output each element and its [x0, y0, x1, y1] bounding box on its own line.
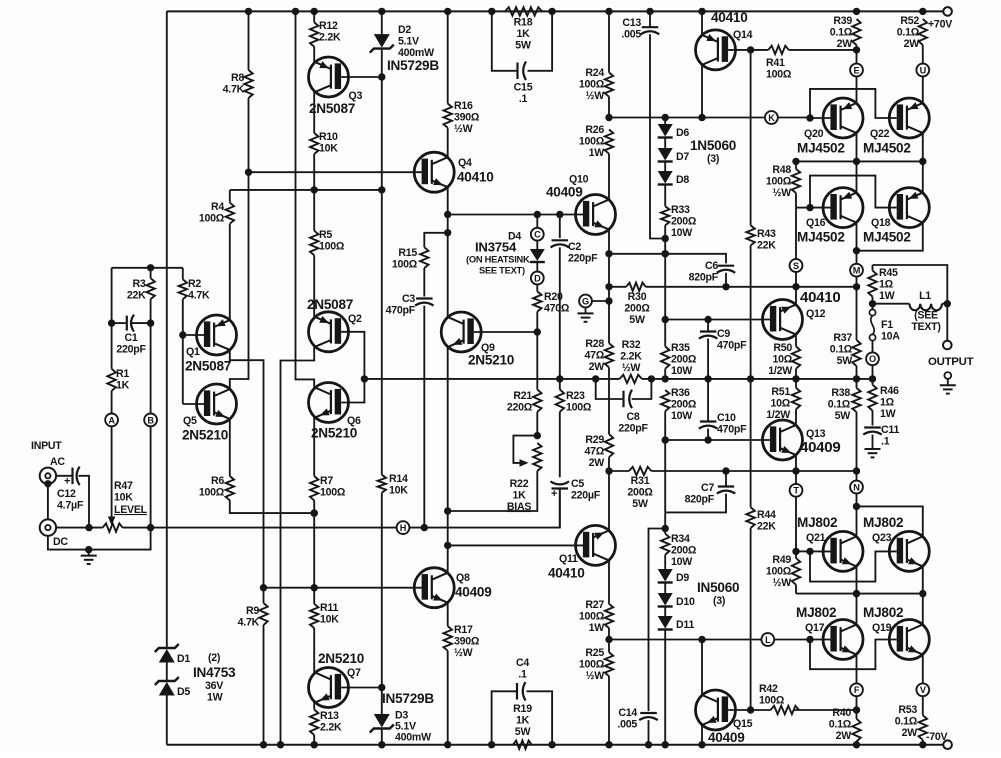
- resistor R36: [661, 387, 697, 440]
- wire C7 lead top: [725, 471, 727, 487]
- wire AC to DC jack: [47, 484, 49, 519]
- svg-text:L: L: [765, 635, 771, 645]
- svg-text:R25: R25: [585, 647, 604, 659]
- svg-text:4.7µF: 4.7µF: [57, 499, 84, 511]
- inductor L1: [873, 290, 948, 333]
- wire C to D4: [536, 215, 538, 228]
- resistor R28: [584, 338, 613, 434]
- svg-text:100Ω: 100Ω: [566, 401, 592, 413]
- resistor R46: [868, 385, 899, 426]
- wire H line right: [409, 490, 559, 528]
- svg-text:IN4753: IN4753: [193, 665, 236, 680]
- svg-text:2.2K: 2.2K: [319, 31, 341, 43]
- svg-text:R30: R30: [628, 291, 647, 303]
- svg-text:100Ω: 100Ω: [759, 694, 785, 706]
- svg-text:R28: R28: [585, 338, 604, 350]
- svg-text:(3): (3): [707, 153, 719, 165]
- svg-text:R31: R31: [631, 475, 650, 487]
- wire Q21 base lead: [810, 550, 830, 552]
- capacitor C9: [699, 328, 747, 351]
- wire R45 top line: [873, 265, 948, 304]
- svg-text:Q18: Q18: [871, 217, 891, 229]
- junction top rail x=314.2: [311, 8, 318, 15]
- capacitor C10: [699, 412, 747, 435]
- label (2): [208, 652, 220, 664]
- wire Q12 bottom: [795, 334, 797, 346]
- wire Q13 bottom: [795, 455, 797, 471]
- svg-text:2.2K: 2.2K: [320, 721, 342, 733]
- svg-text:100Ω: 100Ω: [199, 212, 225, 224]
- resistor R14: [378, 473, 409, 688]
- node C: [531, 228, 544, 241]
- label 36V: [205, 680, 223, 692]
- junction C6/R30bus: [722, 283, 729, 290]
- svg-text:R40: R40: [832, 707, 851, 719]
- junction Q3 base / D2 col: [378, 73, 385, 80]
- junction R6/R7 junction: [311, 509, 318, 516]
- svg-text:R4: R4: [211, 201, 224, 213]
- resistor R48: [766, 161, 800, 207]
- svg-text:1K: 1K: [516, 714, 530, 726]
- svg-text:.005: .005: [617, 718, 637, 730]
- svg-text:200Ω: 200Ω: [671, 353, 697, 365]
- svg-text:2N5210: 2N5210: [182, 428, 228, 443]
- svg-text:100Ω: 100Ω: [579, 658, 605, 670]
- svg-text:F: F: [854, 685, 860, 695]
- svg-text:0.1Ω: 0.1Ω: [830, 26, 853, 38]
- svg-text:R29: R29: [585, 434, 604, 446]
- svg-text:R24: R24: [585, 67, 604, 79]
- transistor Q12: [763, 289, 841, 340]
- svg-text:D5: D5: [177, 686, 190, 698]
- wire C1 lead r: [132, 322, 151, 324]
- label +70V: [928, 19, 952, 31]
- wire Q2 collector jog: [281, 347, 315, 745]
- svg-text:1K: 1K: [116, 379, 130, 391]
- resistor R42: [751, 683, 857, 714]
- ground input ground: [81, 550, 97, 564]
- svg-text:(2): (2): [208, 652, 220, 664]
- svg-text:40409: 40409: [708, 730, 745, 745]
- wire R37 col: [856, 287, 858, 340]
- svg-text:1W: 1W: [589, 147, 605, 159]
- svg-text:Q20: Q20: [804, 128, 824, 140]
- svg-text:R21: R21: [513, 390, 532, 402]
- svg-text:10W: 10W: [671, 556, 692, 568]
- wire Q7 base lead: [341, 687, 382, 689]
- wire R2 top wire: [229, 224, 231, 320]
- svg-text:200Ω: 200Ω: [624, 302, 650, 314]
- label 1W: [207, 692, 223, 704]
- svg-text:10K: 10K: [319, 142, 338, 154]
- junction bottom rail x=263.5: [260, 741, 267, 748]
- wire R21 top: [536, 332, 538, 390]
- junction F col/bus3: [853, 590, 860, 597]
- resistor R3: [127, 268, 155, 323]
- junction C8 right/C13: [648, 375, 655, 382]
- svg-text:D: D: [534, 273, 541, 283]
- wire 295 column: [296, 11, 315, 387]
- transistor Q3: [309, 57, 363, 116]
- resistor R33: [661, 204, 697, 239]
- svg-text:C15: C15: [514, 82, 533, 94]
- wire Q5 collector... emitter: [229, 419, 231, 476]
- svg-text:G: G: [582, 296, 589, 306]
- wire Q9 base lead: [474, 331, 538, 333]
- svg-text:R11: R11: [320, 602, 338, 614]
- transistor Q15: [696, 690, 753, 745]
- svg-text:100Ω: 100Ω: [766, 565, 792, 577]
- svg-text:Q7: Q7: [347, 667, 361, 679]
- wire Q4 base line: [249, 171, 425, 173]
- wire Q10 base line: [448, 214, 586, 216]
- junction C7/bus: [722, 467, 729, 474]
- svg-text:2W: 2W: [902, 727, 918, 739]
- resistor R21: [507, 390, 542, 436]
- wire to Q17: [856, 594, 858, 625]
- svg-text:R6: R6: [211, 475, 224, 487]
- label DC: [53, 536, 68, 548]
- wire F to R40: [856, 696, 858, 719]
- svg-text:T: T: [793, 486, 799, 496]
- resistor R19: [513, 657, 532, 749]
- svg-text:5W: 5W: [515, 39, 531, 51]
- svg-text:R12: R12: [319, 20, 338, 32]
- svg-text:SEE TEXT): SEE TEXT): [479, 266, 525, 276]
- wire C3 to H: [423, 306, 425, 528]
- svg-text:M: M: [853, 266, 861, 276]
- wire feedback bus: [364, 378, 619, 380]
- svg-text:R35: R35: [671, 342, 690, 354]
- svg-text:2N5087: 2N5087: [185, 359, 231, 374]
- svg-text:Q8: Q8: [456, 572, 470, 584]
- junction Q21 base: [806, 548, 813, 555]
- svg-text:R45: R45: [879, 267, 898, 279]
- wire R31 bus: [609, 470, 629, 472]
- capacitor C14: [617, 707, 657, 730]
- svg-text:100Ω: 100Ω: [199, 486, 225, 498]
- wire Q17 base lead: [810, 639, 830, 641]
- transistor Q21: [797, 515, 863, 571]
- wire Q16 base lead: [810, 207, 830, 209]
- svg-text:22K: 22K: [757, 239, 776, 251]
- label D1: [177, 653, 190, 665]
- ground output: [944, 372, 951, 379]
- wire R48 jog: [796, 207, 810, 209]
- label (3) top: [707, 153, 719, 165]
- wire E col to Q16: [856, 161, 858, 192]
- transistor Q18: [863, 188, 929, 245]
- junction 609/G: [605, 297, 612, 304]
- wire Dstring to Q12 baseline: [664, 239, 666, 320]
- junction R27/L line: [605, 636, 612, 643]
- wire D8 to R33: [664, 186, 666, 207]
- svg-text:.005: .005: [621, 28, 641, 40]
- junction bottom rail x=702.0: [698, 741, 705, 748]
- junction R35 top: [662, 316, 669, 323]
- svg-text:R39: R39: [833, 15, 852, 27]
- wire C12 to level pot: [79, 476, 90, 528]
- resistor R2: [179, 278, 210, 335]
- diode D9: [658, 569, 690, 584]
- svg-text:0.1Ω: 0.1Ω: [828, 398, 851, 410]
- resistor R35: [661, 320, 697, 379]
- junction Q15/L: [698, 636, 705, 643]
- svg-text:Q23: Q23: [872, 532, 892, 544]
- transistor Q8: [414, 568, 492, 608]
- svg-text:40409: 40409: [546, 185, 583, 200]
- wire D9-D10: [664, 584, 666, 595]
- svg-text:200Ω: 200Ω: [671, 398, 697, 410]
- svg-text:47Ω: 47Ω: [584, 349, 604, 361]
- svg-text:R13: R13: [320, 710, 339, 722]
- svg-text:22K: 22K: [127, 289, 146, 301]
- wire to OUTPUT: [946, 304, 948, 341]
- svg-text:R46: R46: [880, 385, 899, 397]
- junction R49 junction: [792, 548, 799, 555]
- wire C9 leads: [707, 320, 709, 332]
- resistor R44: [746, 379, 776, 710]
- svg-text:½W: ½W: [622, 362, 641, 374]
- junction top rail x=609.0: [605, 8, 612, 15]
- capacitor C13: [621, 17, 659, 40]
- junction T/lowbus: [792, 467, 799, 474]
- junction R35/bus: [662, 375, 669, 382]
- junction C1 right: [147, 319, 154, 326]
- resistor R34: [661, 529, 697, 571]
- wire Q14 bottom: [701, 65, 703, 118]
- svg-text:Q12: Q12: [806, 308, 826, 320]
- transistor Q14: [696, 10, 753, 70]
- junction R36 bottom: [662, 436, 669, 443]
- wire D to R20: [536, 284, 538, 291]
- svg-text:200Ω: 200Ω: [671, 215, 697, 227]
- svg-text:R16: R16: [454, 100, 473, 112]
- svg-text:R17: R17: [454, 624, 473, 636]
- resistor R9: [238, 603, 268, 628]
- resistor R5: [310, 190, 345, 317]
- transistor Q17: [796, 605, 863, 660]
- svg-text:820pF: 820pF: [689, 271, 719, 283]
- junction Q7 base: [378, 684, 385, 691]
- resistor R41: [751, 46, 857, 81]
- junction R43-R44/bus: [747, 375, 754, 382]
- svg-text:C6: C6: [705, 260, 718, 272]
- junction L1 right: [944, 300, 951, 307]
- wire U col to Q18: [922, 161, 924, 192]
- label INPUT: [31, 440, 62, 452]
- junction Q11 base line dot: [444, 542, 451, 549]
- wiper arrow R47: [108, 426, 116, 525]
- junction R34/C14: [662, 525, 669, 532]
- svg-text:40410: 40410: [800, 289, 840, 306]
- svg-text:(ON HEATSINK: (ON HEATSINK: [466, 255, 530, 265]
- junction Q17 base: [806, 636, 813, 643]
- resistor R13: [310, 702, 342, 745]
- junction Dstring/K: [662, 114, 669, 121]
- svg-text:Q21: Q21: [806, 532, 826, 544]
- svg-text:2W: 2W: [589, 361, 605, 373]
- node T: [790, 484, 803, 497]
- svg-text:R3: R3: [132, 278, 145, 290]
- junction R50/bus: [792, 375, 799, 382]
- svg-text:5W: 5W: [632, 498, 648, 510]
- wire Q20 base lead: [810, 117, 830, 119]
- label BIAS: [507, 501, 531, 513]
- junction bottom rail x=314.2: [311, 741, 318, 748]
- label IN5729B top: [387, 58, 439, 73]
- junction C2 top: [556, 211, 563, 218]
- junction V col/bus3: [919, 590, 926, 597]
- wire feedback bus right: [642, 378, 873, 380]
- junction Q16 base: [806, 204, 813, 211]
- wire U to Q22: [922, 76, 924, 103]
- junction Q18 join: [853, 247, 860, 254]
- junction top rail x=381.8: [378, 8, 385, 15]
- svg-text:1Ω: 1Ω: [880, 396, 895, 408]
- svg-text:100Ω: 100Ω: [766, 175, 792, 187]
- svg-text:½W: ½W: [773, 577, 792, 589]
- label D3 l3: [395, 732, 431, 744]
- junction S/R30bus: [792, 283, 799, 290]
- wire D7-D8: [664, 163, 666, 173]
- wire T to R49j: [795, 497, 797, 552]
- svg-text:IN5729B: IN5729B: [387, 58, 439, 73]
- svg-text:0.1Ω: 0.1Ω: [829, 718, 852, 730]
- svg-text:2N5210: 2N5210: [318, 651, 364, 666]
- label IN5729B bot: [382, 691, 434, 706]
- wire C7 bottom: [665, 494, 726, 513]
- resistor R53: [895, 704, 927, 745]
- junction 609/R30bus: [605, 283, 612, 290]
- wire Q14 top: [701, 11, 703, 35]
- svg-text:C1: C1: [124, 332, 137, 344]
- svg-text:MJ4502: MJ4502: [797, 230, 845, 245]
- node L: [761, 633, 774, 646]
- wire Q18 bottom: [857, 223, 923, 251]
- transistor Q4: [414, 152, 493, 192]
- capacitor C2: [551, 240, 599, 264]
- resistor R6: [199, 475, 314, 513]
- wire C10 lead2: [707, 429, 709, 440]
- node M: [850, 264, 863, 277]
- svg-text:R53: R53: [898, 704, 917, 716]
- resistor R49: [766, 551, 800, 593]
- svg-text:INPUT: INPUT: [31, 440, 62, 452]
- svg-text:C: C: [534, 230, 541, 240]
- junction bottom rail x=280.5: [277, 741, 284, 748]
- svg-text:Q4: Q4: [458, 157, 472, 169]
- wire Q17 bottom: [856, 654, 858, 683]
- svg-text:220µF: 220µF: [571, 489, 601, 501]
- svg-text:+70V: +70V: [928, 19, 952, 31]
- svg-text:Q11: Q11: [559, 553, 578, 565]
- svg-text:E: E: [854, 65, 860, 75]
- svg-text:O: O: [869, 354, 876, 364]
- svg-text:C2: C2: [568, 241, 581, 253]
- svg-text:10K: 10K: [389, 484, 408, 496]
- label heatsink2: [479, 266, 525, 276]
- svg-text:R44: R44: [757, 509, 776, 521]
- svg-text:D7: D7: [676, 151, 689, 163]
- junction R22 top: [534, 432, 541, 439]
- svg-text:D9: D9: [676, 572, 689, 584]
- wire C11 gnd lead: [872, 435, 874, 443]
- wire L to Q17: [774, 639, 810, 641]
- svg-text:1W: 1W: [207, 692, 223, 704]
- wire link to Q23: [857, 506, 923, 536]
- svg-text:1W: 1W: [589, 622, 605, 634]
- resistor R32: [620, 339, 643, 383]
- resistor R39: [830, 15, 861, 64]
- svg-text:5W: 5W: [835, 410, 851, 422]
- svg-text:LEVEL: LEVEL: [114, 504, 148, 516]
- svg-text:2N5087: 2N5087: [309, 101, 355, 116]
- junction pot right/B/H: [147, 524, 154, 531]
- node U: [916, 64, 929, 77]
- wire S to bus: [795, 272, 797, 287]
- wire 609 col to R30bus: [608, 254, 610, 301]
- svg-text:R36: R36: [671, 387, 690, 399]
- svg-text:2N5210: 2N5210: [468, 353, 514, 368]
- capacitor C12: [57, 467, 84, 512]
- junction feedback bus start: [361, 375, 368, 382]
- resistor R18: [505, 7, 542, 51]
- wire bus3: [796, 593, 923, 595]
- svg-text:R2: R2: [188, 278, 201, 290]
- junction R8 bottom / Q4 base line: [245, 169, 252, 176]
- svg-text:K: K: [768, 113, 775, 123]
- junction R7 bottom: [311, 509, 318, 516]
- transistor Q20: [797, 98, 863, 156]
- svg-text:Q22: Q22: [870, 128, 890, 140]
- junction top rail x=552.1: [548, 8, 555, 15]
- svg-text:C5: C5: [571, 478, 584, 490]
- transistor Q5: [182, 384, 237, 443]
- junction top rail x=248.5: [245, 8, 252, 15]
- junction O line/bus: [853, 375, 860, 382]
- wire K bus: [609, 117, 765, 119]
- svg-text:MJ4502: MJ4502: [797, 141, 845, 156]
- junction bottom rail x=665.2: [662, 741, 669, 748]
- wire D4 to D: [536, 263, 538, 272]
- wire Q21 bottom: [856, 566, 858, 593]
- label D2 l1: [398, 24, 411, 36]
- resistor R22: [448, 443, 542, 511]
- ground G ground: [578, 307, 594, 321]
- junction N/Q23 link: [853, 503, 860, 510]
- svg-text:R8: R8: [231, 72, 244, 84]
- svg-text:10K: 10K: [114, 491, 133, 503]
- svg-text:½W: ½W: [454, 647, 473, 659]
- wire Q10 bottom: [608, 229, 610, 254]
- junction R24/R26/K: [605, 114, 612, 121]
- svg-text:40410: 40410: [457, 170, 494, 185]
- resistor R7: [310, 475, 346, 604]
- resistor R24: [579, 11, 613, 117]
- wire D3 to rail: [381, 730, 383, 745]
- label -70V: [926, 731, 948, 743]
- junction H/C3: [421, 524, 428, 531]
- svg-text:D8: D8: [676, 174, 689, 186]
- wire D6-D7: [664, 139, 666, 150]
- svg-text:½W: ½W: [773, 187, 792, 199]
- transistor Q22: [863, 98, 929, 156]
- label (3) bot: [713, 595, 725, 607]
- wire -70V bottom rail: [167, 744, 943, 746]
- wire N col: [856, 471, 858, 481]
- wire Q8 base line: [264, 587, 425, 589]
